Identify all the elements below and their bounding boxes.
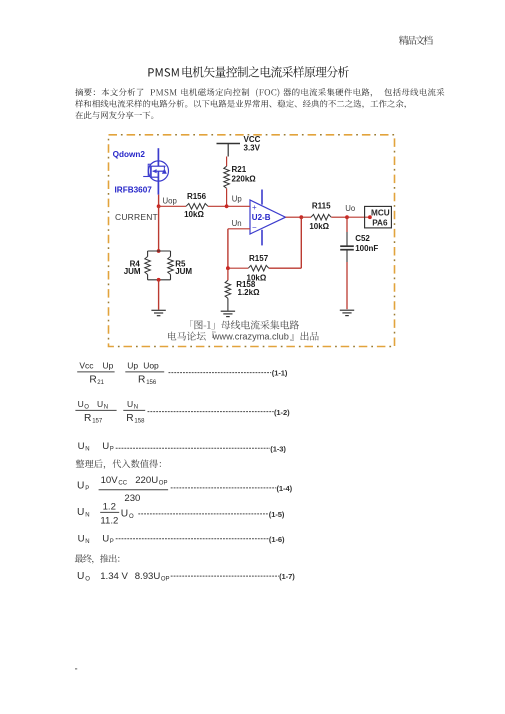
- svg-text:R: R: [84, 413, 91, 424]
- wire Uop to R156: [159, 205, 186, 207]
- resistor R115 10k: [309, 201, 331, 231]
- wire output junction to R115: [301, 216, 311, 218]
- svg-text:N: N: [85, 512, 89, 518]
- svg-text:R21: R21: [232, 165, 247, 174]
- svg-text:−: −: [252, 223, 257, 232]
- svg-text:P: P: [110, 447, 114, 453]
- resistor R156 10k: [184, 192, 208, 219]
- svg-text:O: O: [129, 514, 134, 520]
- abstract line 2: [75, 100, 406, 109]
- wire R158 to ground: [227, 298, 229, 310]
- svg-text:U: U: [77, 507, 84, 518]
- svg-text:O: O: [85, 577, 90, 583]
- equation 1-2: [75, 399, 290, 424]
- svg-text:10kΩ: 10kΩ: [184, 210, 204, 219]
- svg-text:U2-B: U2-B: [252, 213, 271, 222]
- svg-text:JUM: JUM: [175, 267, 192, 276]
- wire Uo to C52: [346, 217, 348, 232]
- MCU PA6 box: [365, 206, 392, 228]
- svg-text:(1-7): (1-7): [279, 572, 295, 581]
- svg-text:U: U: [127, 399, 133, 409]
- wire op-amp minus input: [228, 228, 250, 230]
- wire feedback horizontal: [269, 267, 302, 269]
- wire R156 to node Up: [208, 205, 227, 207]
- svg-text:www.crazyma.club: www.crazyma.club: [212, 332, 289, 342]
- ground below R4 R5: [151, 310, 165, 315]
- svg-text:230: 230: [124, 493, 140, 504]
- wire R21 to node Up: [226, 189, 228, 207]
- svg-text:11.2: 11.2: [100, 516, 118, 527]
- svg-text:100nF: 100nF: [355, 244, 378, 253]
- svg-text:OP: OP: [159, 481, 168, 487]
- equation 1-3: [78, 441, 287, 453]
- text 整理后: [76, 460, 161, 470]
- resistor R5 JUM: [148, 251, 193, 280]
- svg-text:Uop: Uop: [163, 196, 178, 205]
- svg-text:R: R: [138, 375, 145, 386]
- wire Q source to node Uop: [158, 195, 160, 207]
- svg-text:158: 158: [134, 418, 145, 424]
- svg-text:N: N: [134, 405, 138, 411]
- svg-text:8.93U: 8.93U: [135, 571, 161, 582]
- node Uo: [345, 204, 356, 219]
- svg-text:U: U: [97, 399, 103, 409]
- svg-text:(1-4): (1-4): [277, 484, 293, 493]
- svg-text:MCU: MCU: [371, 208, 390, 217]
- equation 1-7: [77, 571, 295, 583]
- op-amp U2-B: [250, 190, 286, 246]
- svg-text:U: U: [102, 441, 109, 452]
- svg-text:Uop: Uop: [143, 361, 159, 371]
- wire op-amp output: [286, 216, 302, 218]
- svg-text:3.3V: 3.3V: [244, 144, 261, 153]
- svg-text:U: U: [77, 481, 84, 492]
- node Un: [232, 219, 242, 228]
- title: [148, 68, 178, 77]
- svg-text:+: +: [252, 203, 257, 212]
- resistor R158 1.2k: [225, 280, 260, 298]
- wire VCC to R21: [226, 157, 228, 167]
- page footer dot: [75, 668, 77, 670]
- wire Uo to MCU pin: [347, 216, 370, 218]
- caption line 2: [168, 332, 215, 341]
- wire node Up to op-amp plus input: [227, 205, 250, 207]
- abstract line 1: [75, 88, 444, 97]
- wire C52 to ground: [346, 250, 348, 262]
- header 精品文档: [399, 36, 433, 45]
- svg-text:(1-3): (1-3): [270, 444, 286, 453]
- wire R157 to node Un: [228, 267, 248, 269]
- svg-text:Qdown2: Qdown2: [113, 150, 146, 159]
- wire Un down to feedback node: [227, 229, 229, 268]
- svg-text:IRFB3607: IRFB3607: [115, 185, 153, 194]
- node output junction: [299, 215, 303, 219]
- svg-text:156: 156: [146, 380, 157, 386]
- ground below C52: [340, 310, 354, 315]
- node Uop: [157, 196, 178, 208]
- resistor R157 10k: [247, 254, 269, 283]
- wire node to R158: [227, 268, 229, 280]
- svg-text:Uo: Uo: [345, 204, 356, 213]
- svg-text:N: N: [104, 405, 108, 411]
- svg-text:220kΩ: 220kΩ: [232, 175, 257, 184]
- svg-text:U: U: [78, 534, 85, 545]
- svg-text:R115: R115: [312, 201, 331, 210]
- svg-text:Up: Up: [127, 361, 138, 371]
- wire to ground: [158, 280, 160, 310]
- svg-text:(1-1): (1-1): [272, 369, 288, 378]
- equation 1-4: [77, 475, 293, 504]
- svg-text:R: R: [126, 413, 133, 424]
- junction R4 R5 bottom: [157, 278, 161, 282]
- svg-text:(1-5): (1-5): [269, 510, 285, 519]
- equation 1-5: [77, 502, 285, 527]
- caption line 1: [190, 320, 299, 329]
- svg-text:10V: 10V: [101, 475, 119, 486]
- svg-text:220U: 220U: [135, 475, 158, 486]
- svg-text:C52: C52: [355, 234, 370, 243]
- svg-text:U: U: [78, 441, 85, 452]
- ground below R158: [221, 311, 235, 316]
- transistor Qdown2 IRFB3607: [113, 148, 169, 194]
- svg-text:CC: CC: [118, 481, 127, 487]
- svg-text:P: P: [85, 486, 89, 492]
- resistor R21 220k: [224, 165, 256, 189]
- wire output down to feedback: [300, 217, 302, 268]
- equation 1-6: [78, 534, 285, 546]
- svg-text:N: N: [85, 447, 89, 453]
- svg-text:10kΩ: 10kΩ: [309, 222, 329, 231]
- svg-text:(1-2): (1-2): [274, 408, 290, 417]
- text 最终: [75, 554, 120, 564]
- svg-text:O: O: [84, 405, 89, 411]
- junction R4 R5 top: [157, 249, 161, 253]
- equation 1-1: [77, 361, 288, 386]
- svg-text:21: 21: [97, 380, 104, 386]
- svg-text:U: U: [78, 399, 84, 409]
- schematic dashed frame: [109, 135, 395, 347]
- svg-text:OP: OP: [161, 576, 170, 582]
- svg-text:CURRENT: CURRENT: [115, 212, 158, 222]
- wire R115 to node Uo: [331, 216, 347, 218]
- svg-text:N: N: [85, 539, 89, 545]
- svg-text:Up: Up: [232, 195, 243, 204]
- node feedback junction: [226, 266, 230, 270]
- svg-text:R156: R156: [187, 192, 207, 201]
- svg-text:P: P: [110, 539, 114, 545]
- svg-text:U: U: [102, 534, 109, 545]
- power VCC 3.3V: [217, 135, 261, 156]
- svg-text:157: 157: [92, 418, 103, 424]
- svg-text:JUM: JUM: [124, 267, 141, 276]
- node Up: [225, 195, 243, 209]
- capacitor C52 100nF: [340, 234, 378, 253]
- svg-text:(1-6): (1-6): [269, 535, 285, 544]
- svg-text:PA6: PA6: [372, 219, 388, 228]
- svg-text:Up: Up: [103, 361, 114, 371]
- svg-text:1.2: 1.2: [103, 502, 116, 513]
- abstract line 3: [75, 111, 153, 119]
- svg-text:Vcc: Vcc: [79, 361, 94, 371]
- svg-text:U: U: [121, 508, 128, 519]
- resistor R4 JUM: [124, 251, 171, 280]
- wire Uop to R4 R5: [158, 206, 160, 251]
- svg-text:Un: Un: [232, 219, 242, 228]
- svg-text:U: U: [77, 571, 84, 582]
- svg-text:R: R: [89, 375, 96, 386]
- svg-text:1.34 V: 1.34 V: [100, 571, 128, 582]
- svg-text:R157: R157: [249, 254, 269, 263]
- svg-text:1.2kΩ: 1.2kΩ: [238, 288, 261, 297]
